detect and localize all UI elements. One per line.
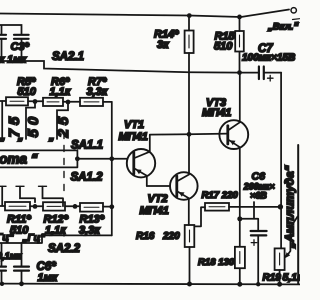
node dot R13 right column [109,204,114,209]
svg-text:„Вкл.“: „Вкл.“ [267,22,298,33]
resistor R17 [205,203,229,211]
svg-text:50: 50 [25,113,42,138]
svg-text:3,3к: 3,3к [87,86,109,98]
svg-text:1мк: 1мк [38,272,59,284]
node dot SA2.1/R15/C7 [237,70,242,75]
svg-text:„Частота “: „Частота “ [0,152,38,167]
svg-text:„Гц“: „Гц“ [22,233,46,244]
svg-text:R18 130: R18 130 [198,257,235,268]
resistor R13 [80,203,103,212]
svg-text:„: „ [17,131,24,143]
wire mid vertical column [111,102,113,236]
capacitor C6 branch [253,202,255,219]
svg-text:„кГц“: „кГц“ [0,233,14,244]
resistor row R11 R12 R13 wires [0,205,112,208]
svg-text:МП41: МП41 [119,131,148,143]
wire R16 top to R17 [194,207,205,226]
node dot R5-R6 [33,99,38,104]
wire right column C7 down to R19 [280,73,282,249]
node dot C3 on SA2.1 wire [19,59,24,64]
node dot R6-R7 [66,100,71,105]
svg-text:SA1.2: SA1.2 [71,172,104,184]
wire SA2.1 row [0,61,240,73]
node dot R11-R12 [33,204,38,209]
svg-text:„: „ [48,131,55,143]
node dot top rail R14 [187,13,192,18]
svg-text:×6В: ×6В [250,191,267,201]
resistor R7 [80,98,103,106]
wire R17 to right column [229,206,280,208]
svg-text:SA2.2: SA2.2 [48,243,81,255]
svg-text:VT2: VT2 [148,193,168,205]
resistor R6 [43,98,63,106]
switch SA1 gang dashed line [63,133,65,197]
svg-text:„Амплитуда“: „Амплитуда“ [284,165,297,249]
svg-text:C3*: C3* [11,41,30,53]
capacitor C3 [0,25,22,34]
wire VT1 emitter to VT2 base [147,185,170,187]
wire R14 bottom to node [188,53,190,134]
capacitor C6* [21,243,23,266]
resistor R12 [43,202,65,210]
transistor VT1 [127,149,155,177]
transistor VT2 [170,172,198,200]
node dot R12-R13 [73,204,78,209]
resistor R14 [188,16,190,31]
capacitor at left edge (cut) [1,25,3,61]
resistor row R5 R6 R7 wires [0,100,112,103]
svg-text:SA2.1: SA2.1 [52,51,84,63]
wire tap contact 25 [57,102,68,139]
svg-text:R19: R19 [263,273,282,284]
svg-text:0,1мк: 0,1мк [0,251,23,261]
wire tap contact 50 [26,102,35,140]
wire bottom ground rail [0,283,300,286]
svg-text:100мк×15В: 100мк×15В [242,53,295,64]
svg-text:510: 510 [18,86,37,98]
wire SA1 wiper pair [0,150,77,167]
node dot VT3 emitter / C6 [237,216,242,221]
wire SA2.2 row [0,235,112,243]
resistor R18 [235,247,245,268]
resistor R16 [185,225,195,247]
wire right edge [297,145,299,284]
node dot top rail R15 [237,15,242,20]
switch SA3 contact ticks [293,19,300,23]
svg-text:VT1: VT1 [124,119,144,131]
svg-text:3к: 3к [157,39,170,51]
wire VT1 collector to node [150,133,189,135]
capacitor at left edge bottom (cut) [1,243,3,283]
resistor R11 [5,202,30,210]
wire lower tap B [20,187,35,203]
wire top supply rail [0,14,241,18]
wire tap contact 75 [1,101,3,139]
svg-text:220: 220 [162,231,180,242]
svg-text:МП41: МП41 [140,205,169,217]
node dot base column [109,156,114,161]
contact ticks SA1.2 [0,185,47,187]
wiper arrow R19 [287,217,298,256]
resistor R5 [6,97,28,105]
node dot collector net [187,132,192,137]
capacitor C7 [240,72,259,74]
resistor R15 [239,17,241,31]
svg-text:R17 220: R17 220 [202,190,239,201]
wire lower tap C [43,187,64,207]
wire wiper to VT1 base [77,158,127,160]
svg-text:„: „ [0,131,6,143]
svg-text:510: 510 [214,41,233,53]
node dot wiper [75,156,80,161]
wire lower tap A [1,187,3,207]
potentiometer R19 [275,248,285,270]
svg-text:1,1к: 1,1к [50,86,72,98]
node dots ground rail [0,282,4,286]
switch SA3 contact circle [291,8,296,13]
transistor VT3 [219,120,248,149]
node dot R17/right column [278,204,283,209]
svg-text:МП41: МП41 [202,107,231,119]
switch SA3 power lever [241,10,289,18]
svg-text:R16: R16 [136,231,155,242]
